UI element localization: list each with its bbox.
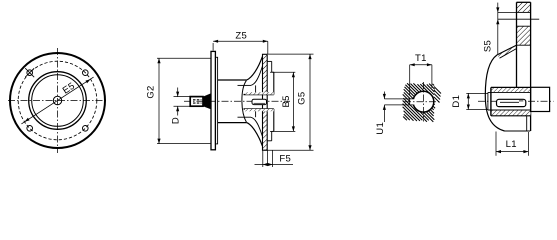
dimension T1 bbox=[409, 65, 411, 95]
keyway slot in socket bbox=[252, 99, 267, 104]
shaft stub cone (hatched) bbox=[203, 93, 211, 109]
dimension B5 bbox=[270, 71, 295, 73]
bolt hole lower-left bbox=[27, 126, 33, 132]
svg-text:T1: T1 bbox=[415, 53, 427, 64]
svg-text:F5: F5 bbox=[279, 154, 291, 165]
drill cross mark on upper-left bolt hole bbox=[25, 68, 34, 77]
inner cavity line top bbox=[238, 84, 252, 86]
centerlines view3 bbox=[404, 101, 441, 103]
flange outer circle bbox=[10, 53, 105, 148]
bottom cells view4 bbox=[505, 130, 531, 132]
keyway slot view4 bbox=[497, 99, 526, 106]
column outline bbox=[517, 1, 531, 3]
hollow shaft bore lines bbox=[488, 91, 531, 93]
bell housing inner curve bottom bbox=[251, 117, 262, 136]
bell wall hatched wedge bbox=[497, 45, 516, 58]
bell housing inner curve top bbox=[251, 66, 262, 85]
svg-text:B5: B5 bbox=[281, 95, 292, 107]
bell wall diagonals bbox=[497, 45, 516, 55]
shaft end faces bbox=[490, 87, 492, 115]
dimension E5 (bolt circle diameter) bbox=[21, 77, 93, 124]
bolt circle (dashed) bbox=[18, 61, 97, 140]
svg-text:G2: G2 bbox=[145, 85, 156, 98]
dimension D (shaft diameter) bbox=[174, 96, 192, 98]
svg-text:D1: D1 bbox=[451, 95, 462, 108]
centering spigot B5 bbox=[272, 71, 274, 73]
keyway notch view3 bbox=[410, 99, 416, 105]
socket bore bbox=[244, 94, 274, 96]
svg-text:D: D bbox=[171, 117, 182, 124]
centerline view4 bbox=[478, 100, 554, 102]
inner cavity line bottom bbox=[238, 116, 252, 118]
cavity edge verticals bbox=[255, 85, 257, 94]
protruding shaft end bbox=[531, 87, 550, 111]
bell housing outer curve top bbox=[247, 57, 263, 80]
dimension G5 bbox=[268, 53, 314, 55]
bolt hole lower-right bbox=[83, 126, 89, 132]
dimension U1 bbox=[383, 92, 385, 99]
hatched hub section view3 bbox=[403, 117, 407, 121]
adapter cylinder body bbox=[218, 79, 247, 81]
spigot ring inner circle bbox=[32, 75, 84, 127]
right flange face band bbox=[267, 60, 272, 62]
hollow shaft OD hatched strips bbox=[491, 87, 531, 92]
bell housing outer curve bottom bbox=[247, 123, 263, 146]
svg-text:U1: U1 bbox=[375, 122, 386, 135]
spigot ring outer circle bbox=[29, 72, 87, 130]
dimension G2 bbox=[157, 57, 211, 59]
right flange hatched rim bbox=[263, 54, 268, 92]
center hub circle bbox=[53, 96, 61, 104]
svg-text:G5: G5 bbox=[296, 92, 307, 105]
dimension Z5 bbox=[212, 43, 214, 51]
bolt hole upper-right bbox=[83, 70, 89, 76]
left flange rim step bbox=[215, 57, 217, 144]
svg-text:L1: L1 bbox=[506, 139, 517, 150]
centerline view2 bbox=[184, 100, 290, 102]
dimension D1 bbox=[466, 92, 488, 94]
dimension L1 bbox=[495, 132, 497, 156]
centerline cross view1 bbox=[8, 100, 107, 102]
hatch ticks along bore bbox=[245, 92, 274, 94]
socket trumpet arc bbox=[242, 80, 247, 122]
svg-text:S5: S5 bbox=[483, 40, 494, 52]
bolt hole upper-left bbox=[27, 70, 33, 76]
bore circle view3 bbox=[413, 91, 434, 112]
dimension F5 bbox=[262, 151, 264, 168]
svg-text:Z5: Z5 bbox=[235, 31, 247, 42]
left flange plate bbox=[211, 51, 215, 149]
long feature line through column bbox=[498, 18, 539, 20]
column hatched cells bbox=[517, 2, 531, 12]
dimension S5 bbox=[497, 3, 499, 55]
shaft stub bbox=[190, 97, 203, 107]
bell arc view4 bbox=[485, 55, 504, 131]
